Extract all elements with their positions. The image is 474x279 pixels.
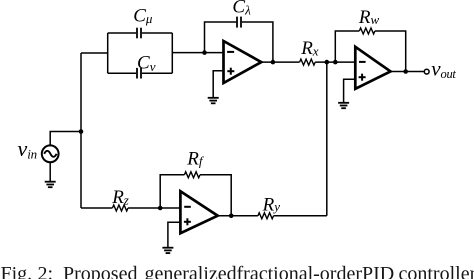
svg-text:vin: vin <box>18 136 37 162</box>
svg-text:Rz: Rz <box>111 187 129 208</box>
svg-text:Rw: Rw <box>358 7 380 28</box>
svg-text:Rx: Rx <box>300 38 319 59</box>
svg-text:Cμ: Cμ <box>133 6 153 27</box>
svg-text:Rf: Rf <box>186 148 205 169</box>
svg-text:Ry: Ry <box>262 194 281 215</box>
svg-text:vout: vout <box>431 57 456 81</box>
svg-text:Cv: Cv <box>137 52 156 74</box>
svg-text:Cλ: Cλ <box>232 0 251 18</box>
